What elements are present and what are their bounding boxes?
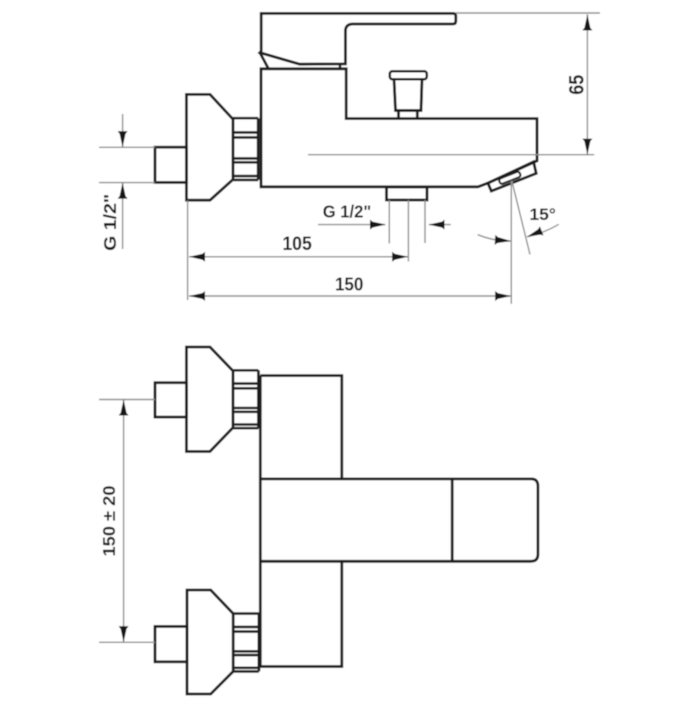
svg-text:G 1/2": G 1/2" [100, 194, 120, 251]
svg-text:150 ± 20: 150 ± 20 [99, 485, 119, 556]
svg-text:105: 105 [282, 234, 312, 255]
svg-text:150: 150 [335, 273, 364, 294]
svg-text:15°: 15° [529, 205, 556, 224]
svg-text:65: 65 [565, 74, 588, 94]
svg-text:G 1/2": G 1/2" [323, 202, 372, 222]
